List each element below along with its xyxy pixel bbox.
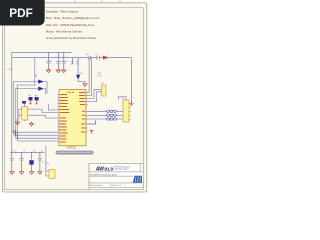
ground below Y1 left red: [15, 120, 19, 125]
jumper S1 row: [106, 110, 116, 112]
sheet interior: [3, 3, 147, 192]
pin ticks Y1 red: [20, 109, 29, 115]
ground C1: [47, 68, 51, 73]
diode D4: [38, 87, 44, 91]
svg-text:File: Game.Sch: File: Game.Sch: [90, 185, 102, 187]
header text block: [46, 10, 100, 40]
IC U1 right pin names red text: [79, 92, 85, 132]
svg-text:Motto : We Wanna Games: Motto : We Wanna Games: [46, 29, 83, 33]
IC U1 pin stubs right: [86, 93, 88, 133]
page background: [0, 0, 149, 198]
power VCC red symbol right column: [129, 101, 133, 106]
wire Y1 to IC: [19, 104, 58, 122]
title row small text: [90, 173, 121, 187]
label above CE caps: [28, 95, 37, 97]
diode D2 vertical with wire: [78, 64, 85, 84]
svg-text:C9: C9: [41, 151, 43, 153]
svg-text:C6: C6: [13, 151, 15, 153]
ground C6: [10, 172, 14, 175]
wire bus left to IC lower pins: [12, 130, 58, 141]
node stub R-label 2: [77, 58, 79, 64]
svg-text:10u: 10u: [28, 95, 31, 97]
svg-text:Title: AT89C51 Game Main Board: Title: AT89C51 Game Main Board: [90, 173, 117, 176]
svg-text:C1: C1: [50, 61, 52, 63]
svg-text:C5: C5: [95, 54, 97, 56]
diode D1 polarized red on rail2: [103, 56, 107, 60]
logo AW 91.0: [95, 167, 105, 173]
net label arrow on vertical: [35, 74, 37, 78]
wire loops left of diodes: [13, 82, 47, 136]
svg-text:AT89C51: AT89C51: [67, 147, 78, 150]
capacitor C4 series on rail2: [88, 56, 90, 60]
capacitor C6: [10, 152, 14, 171]
diode D3: [38, 80, 44, 84]
svg-text:Mail : Rick_Hudson_2000@yahoo.: Mail : Rick_Hudson_2000@yahoo.com: [46, 16, 100, 20]
svg-text:10u: 10u: [34, 95, 37, 97]
title small blue text: [114, 165, 131, 170]
pin ticks JP1 red: [129, 104, 130, 120]
capacitor C7: [20, 152, 24, 171]
svg-text:C8: C8: [33, 151, 35, 153]
crystal Y1 yellow: [22, 107, 28, 120]
relay K1 small yellow: [102, 85, 107, 96]
label net name: [98, 73, 103, 78]
capacitor C3: [62, 52, 66, 67]
wire mid verticals to IC right: [88, 58, 102, 102]
capacitor CE1 dark blue square: [29, 97, 33, 100]
svg-text:PDF: PDF: [9, 6, 33, 20]
svg-text:JP1: JP1: [121, 98, 124, 100]
svg-text:C3: C3: [65, 61, 67, 63]
svg-text:C2: C2: [60, 61, 62, 63]
ground C3: [62, 68, 66, 73]
svg-text:J2: J2: [42, 162, 44, 164]
capacitor C1: [47, 52, 51, 67]
title block outline: [89, 164, 143, 190]
jumper S3 row: [106, 118, 116, 120]
ground C9: [38, 172, 42, 175]
bus thick grey: [56, 151, 94, 154]
node stub R-label 1: [72, 58, 74, 64]
capacitor CE3 dark blue above crystal: [22, 101, 26, 104]
ground D2: [83, 84, 87, 87]
svg-text:Linux And Down by Real Mod Onl: Linux And Down by Real Mod Online: [46, 36, 97, 40]
ground C2: [56, 68, 60, 73]
node VCC label: [8, 69, 13, 71]
capacitor C9: [38, 152, 42, 171]
wire bottom rail: [10, 151, 44, 153]
capacitor C2: [56, 52, 60, 67]
connector JP1 yellow: [123, 100, 129, 122]
wire below right IC: [88, 121, 96, 125]
pin mark below IC red: [90, 130, 94, 133]
svg-text:Schematic capture: Schematic capture: [114, 168, 129, 171]
svg-text:K1: K1: [102, 83, 104, 85]
capacitor C5 series on rail2: [97, 56, 99, 60]
label caps: [50, 61, 68, 63]
wire right long vertical: [131, 58, 133, 101]
IC U1 AT89C51: [59, 90, 86, 146]
capacitor C8 electrolytic dark: [31, 152, 33, 171]
wire JP1 top loop: [119, 97, 127, 101]
wire top rail 2: [12, 57, 132, 59]
pin marks CE1 CE2 red: [30, 100, 38, 104]
PDF badge: [0, 0, 45, 26]
logo blue flag: [133, 176, 142, 183]
regulator U2 yellow small bottom: [46, 146, 49, 176]
ground below Y1 right red: [29, 122, 33, 126]
IC U1 part number: [67, 147, 78, 150]
wire jumpers to connector: [88, 111, 124, 119]
zone tick marks top: [75, 0, 120, 3]
wire left vertical rail: [11, 52, 13, 152]
ground C8: [29, 172, 33, 175]
IC U1 top label: [67, 92, 75, 94]
svg-text:Sheet 1 of 1: Sheet 1 of 1: [111, 184, 121, 187]
title block white fill: [89, 164, 143, 189]
jumper S2 row: [106, 114, 116, 116]
svg-text:91.0: 91.0: [105, 166, 114, 171]
wire top rail 1: [12, 51, 72, 53]
labels bottom caps: [13, 151, 43, 153]
svg-text:Web site : WWW.PlayMall.Rig.Co: Web site : WWW.PlayMall.Rig.Com: [46, 23, 95, 27]
svg-text:VCC: VCC: [8, 69, 13, 71]
ground C7: [20, 172, 24, 175]
IC U1 pin stubs left: [58, 95, 60, 143]
svg-text:C4: C4: [86, 54, 88, 56]
svg-text:C7: C7: [23, 151, 25, 153]
svg-text:Chip 89: Chip 89: [67, 92, 75, 94]
capacitor CE2 dark blue square: [35, 97, 39, 100]
IC U1 left pin names red text: [60, 94, 70, 142]
svg-text:Designer : Rick Hudson: Designer : Rick Hudson: [46, 10, 79, 14]
